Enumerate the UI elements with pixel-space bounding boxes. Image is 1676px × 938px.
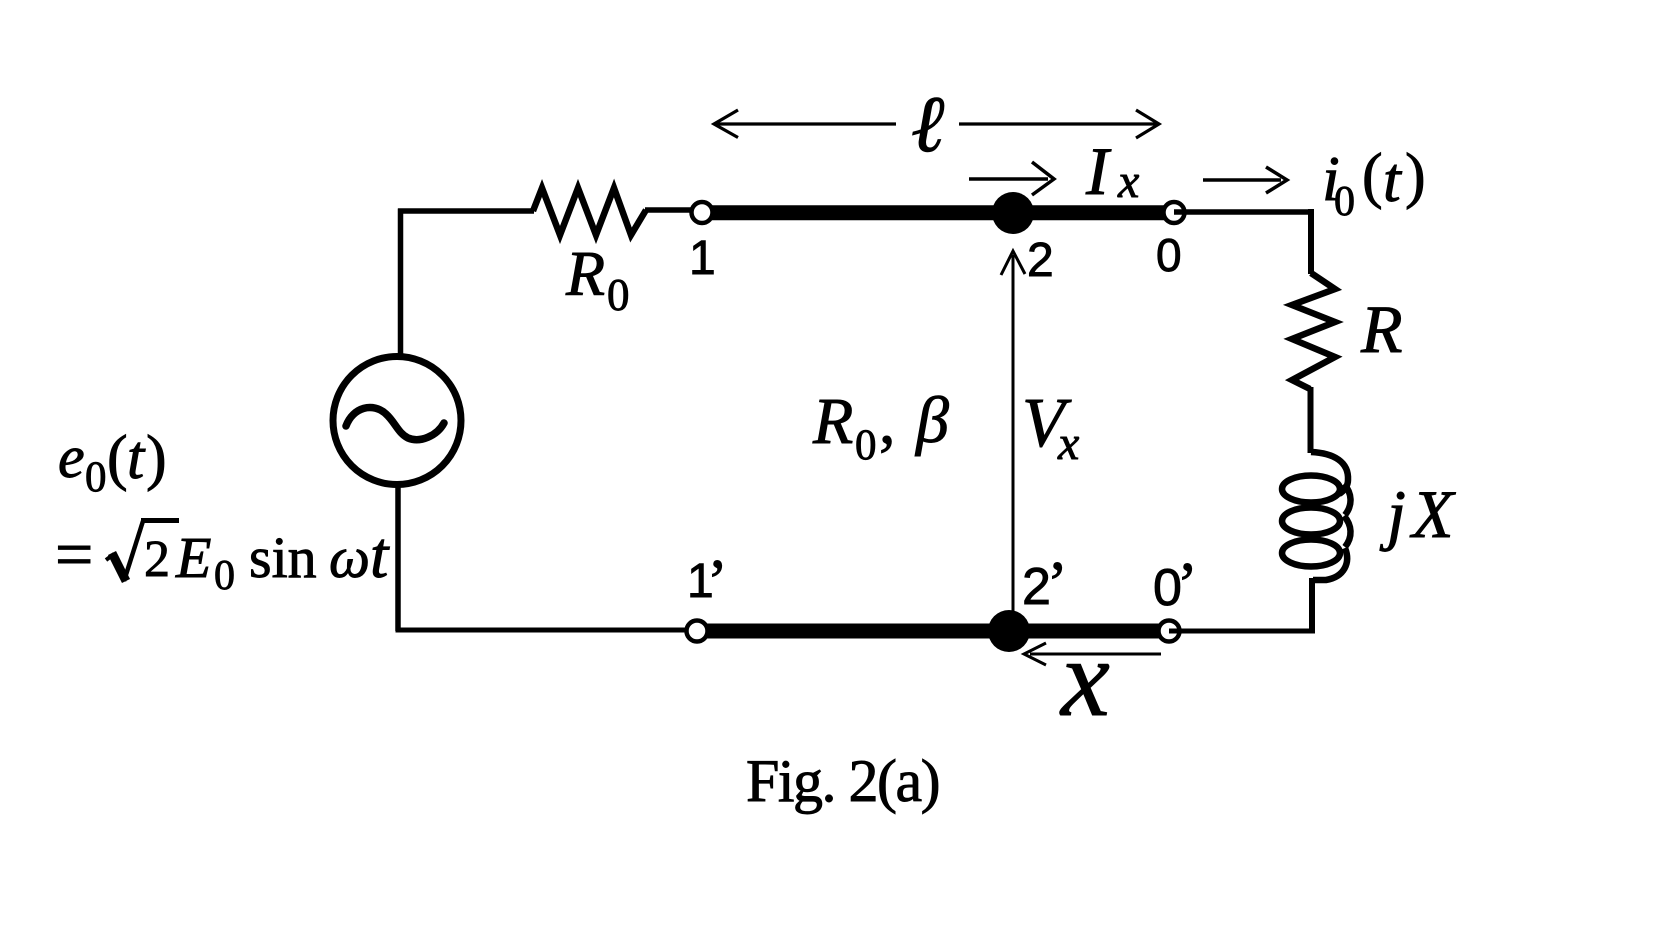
svg-text:sin: sin [249,525,317,590]
svg-text:0: 0 [607,270,630,320]
svg-text:’: ’ [1177,551,1198,619]
svg-text:0: 0 [1334,179,1355,225]
svg-text:0: 0 [1156,229,1182,281]
wire top-left horizontal [398,208,534,214]
source e0 circle [333,357,461,485]
dimension arrow l left [714,110,896,138]
svg-text:R: R [812,385,853,458]
svg-text:0: 0 [214,553,235,599]
svg-text:0: 0 [85,454,107,501]
node 0 [1164,202,1185,223]
svg-text:ℓ: ℓ [911,81,944,169]
svg-text:(: ( [107,424,128,492]
node 0' [1159,621,1180,642]
resistor R [1292,273,1335,389]
wire R to coil [1308,387,1314,453]
inductor jX coil [1282,452,1351,580]
wire bottom-left horizontal [396,628,698,633]
wire bottom-right horizontal [1169,629,1315,634]
svg-text:E: E [175,525,211,590]
svg-text:’: ’ [707,548,728,616]
svg-text:2: 2 [144,531,170,588]
node 2' junction dot [988,610,1030,652]
svg-text:): ) [1405,142,1426,210]
svg-text:,: , [879,385,896,458]
source sine wave [346,408,444,440]
svg-text:x: x [1059,617,1110,739]
svg-text:R: R [1360,291,1403,367]
wire left vertical lower [395,487,401,631]
svg-text:=: = [55,516,93,592]
transmission line top conductor [700,205,1176,220]
wire left vertical upper [398,209,404,357]
dimension arrow l right [959,110,1159,138]
svg-text:1: 1 [689,232,716,285]
svg-text:R: R [565,238,605,309]
svg-text:x: x [1117,155,1139,208]
wire right vertical upper [1308,209,1314,274]
wire R0 to node 1 [645,207,694,213]
voltage arrow Vx [1001,251,1025,614]
svg-text:I: I [1085,133,1112,209]
transmission line bottom conductor [695,624,1171,639]
distance arrow x [1024,643,1161,665]
svg-text:’: ’ [1047,550,1068,618]
svg-text:X: X [1409,476,1456,552]
svg-text:e: e [58,424,85,490]
svg-text:t: t [127,424,146,492]
wire coil to bottom corner [1309,578,1315,631]
node 1' [687,621,708,642]
svg-text:2: 2 [1027,234,1054,287]
node 2 junction dot [992,192,1034,234]
svg-text:0: 0 [855,422,877,469]
node 1 [692,202,713,223]
svg-text:(: ( [1362,142,1383,210]
current arrow Ix [969,162,1054,195]
resistor R0 [533,188,646,235]
svg-text:x: x [1057,417,1079,470]
current arrow i0(t) [1203,167,1287,193]
svg-text:Fig. 2(a): Fig. 2(a) [746,748,939,814]
wire node 0 to right corner [1174,209,1313,215]
radical sign [106,554,114,560]
svg-text:β: β [914,384,949,457]
svg-text:ω: ω [329,525,370,590]
svg-text:): ) [146,424,167,492]
svg-text:t: t [370,519,390,592]
svg-text:t: t [1383,144,1403,215]
